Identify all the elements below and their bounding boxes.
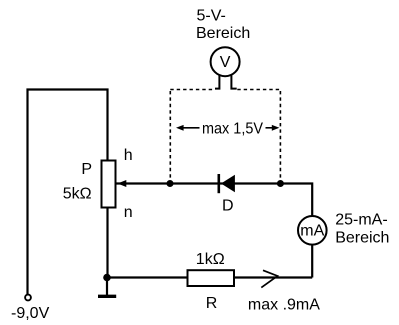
svg-text:max .9mA: max .9mA — [248, 297, 320, 314]
svg-text:h: h — [124, 147, 133, 164]
svg-text:25-mA-: 25-mA- — [335, 211, 387, 228]
svg-text:Bereich: Bereich — [196, 25, 250, 42]
svg-text:mA: mA — [300, 222, 324, 239]
svg-text:5-V-: 5-V- — [197, 7, 226, 24]
svg-text:P: P — [81, 161, 92, 178]
svg-text:-9,0V: -9,0V — [11, 305, 50, 322]
svg-text:max 1,5V: max 1,5V — [202, 121, 263, 138]
svg-text:5kΩ: 5kΩ — [63, 186, 92, 203]
svg-text:V: V — [220, 54, 231, 71]
svg-text:1kΩ: 1kΩ — [196, 251, 225, 268]
svg-text:R: R — [206, 295, 218, 312]
svg-text:Bereich: Bereich — [335, 230, 389, 247]
svg-text:n: n — [124, 204, 133, 221]
svg-text:D: D — [222, 198, 234, 215]
